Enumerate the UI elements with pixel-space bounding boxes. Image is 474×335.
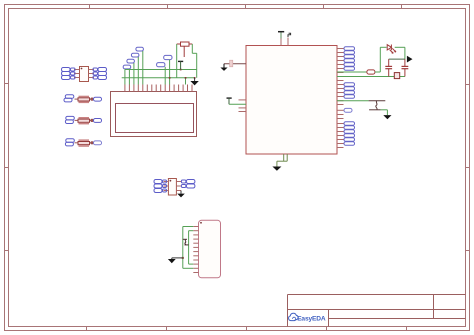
title block [288, 295, 466, 327]
wire LCD data verticals [125, 51, 170, 85]
U1 top pin VCC [278, 32, 284, 46]
capacitor C1 [385, 59, 392, 76]
ground (LCD area) [190, 78, 198, 86]
J1 pins [193, 227, 198, 273]
wire to R5 [337, 71, 367, 73]
net flag EN [157, 63, 165, 67]
junction dots [169, 69, 196, 79]
ground (switch) [383, 115, 391, 119]
ground (below U1) [272, 167, 281, 171]
resistor R2 row [65, 116, 101, 124]
wire J1 outer loop [183, 227, 194, 269]
U1 bottom pins + wires [277, 154, 287, 167]
wire cap rail [389, 58, 405, 60]
net flag single (PB) [344, 108, 352, 112]
U2 right net flags [93, 68, 107, 80]
U3 left net flags [154, 180, 167, 193]
resistor R5 [367, 70, 380, 74]
net flag D7 [136, 47, 144, 51]
U1 right net flags group C [344, 122, 355, 146]
U1 right net flags group B [344, 83, 355, 99]
svg-text:EasyEDA: EasyEDA [297, 316, 326, 323]
U1 right pins [337, 49, 344, 148]
op-amp U2 (top-left 6-pin IC) [80, 67, 89, 82]
power flag VCC (LCD) [178, 61, 183, 69]
connector J1 [199, 220, 221, 277]
wire J1 to ground [172, 257, 183, 259]
MCU U1 [246, 46, 337, 155]
net flag RS [164, 55, 172, 59]
LED LED1 [387, 45, 396, 54]
resistor R4 (LCD contrast) [177, 42, 193, 57]
wire bus VSS [122, 77, 195, 79]
resistor R1 row [64, 95, 102, 103]
switch SW2 (on J1) [183, 239, 189, 245]
resistor R3 row [65, 139, 101, 147]
net flag D5 [127, 59, 134, 63]
U3 right net flags [181, 180, 195, 189]
junction [182, 257, 184, 259]
capacitor C2 [402, 59, 409, 76]
ground (right arrow) [407, 56, 413, 63]
U2 left net flags [62, 68, 76, 80]
wire bus VDD [125, 69, 197, 71]
U3 pins [164, 182, 182, 191]
wire to reset switch [337, 100, 369, 102]
ground (J1) [168, 258, 176, 263]
wire LED branch [380, 47, 405, 72]
LCD module LCD1 [111, 92, 197, 137]
wire R4 loop [177, 44, 197, 78]
op-amp U3 (mid 6-pin IC) [168, 179, 176, 196]
net flag D4 [123, 65, 131, 69]
power flag VCC (U1 left) [227, 98, 232, 104]
ground (U3) [177, 191, 185, 198]
net flag D6 [131, 53, 139, 57]
capacitor C3 (AREF) [224, 60, 246, 67]
wire taps to LCD pins [185, 78, 187, 85]
EasyEDA logo [289, 313, 326, 322]
switch SW1 [369, 101, 386, 110]
wire switch to ground [381, 110, 388, 115]
U1 right net flags group A [344, 47, 355, 71]
LCD1 pins 1-16 [125, 85, 192, 92]
wire U1 left VCC [229, 103, 246, 105]
wire VSS rail right [337, 76, 405, 78]
ground (AREF) [220, 64, 227, 71]
U1 top pin AVCC flag [288, 33, 291, 45]
U1 left pins [239, 100, 247, 112]
crystal Y1 [394, 73, 399, 79]
wire J1 inner loop [189, 231, 194, 264]
U2 pins [74, 70, 94, 78]
